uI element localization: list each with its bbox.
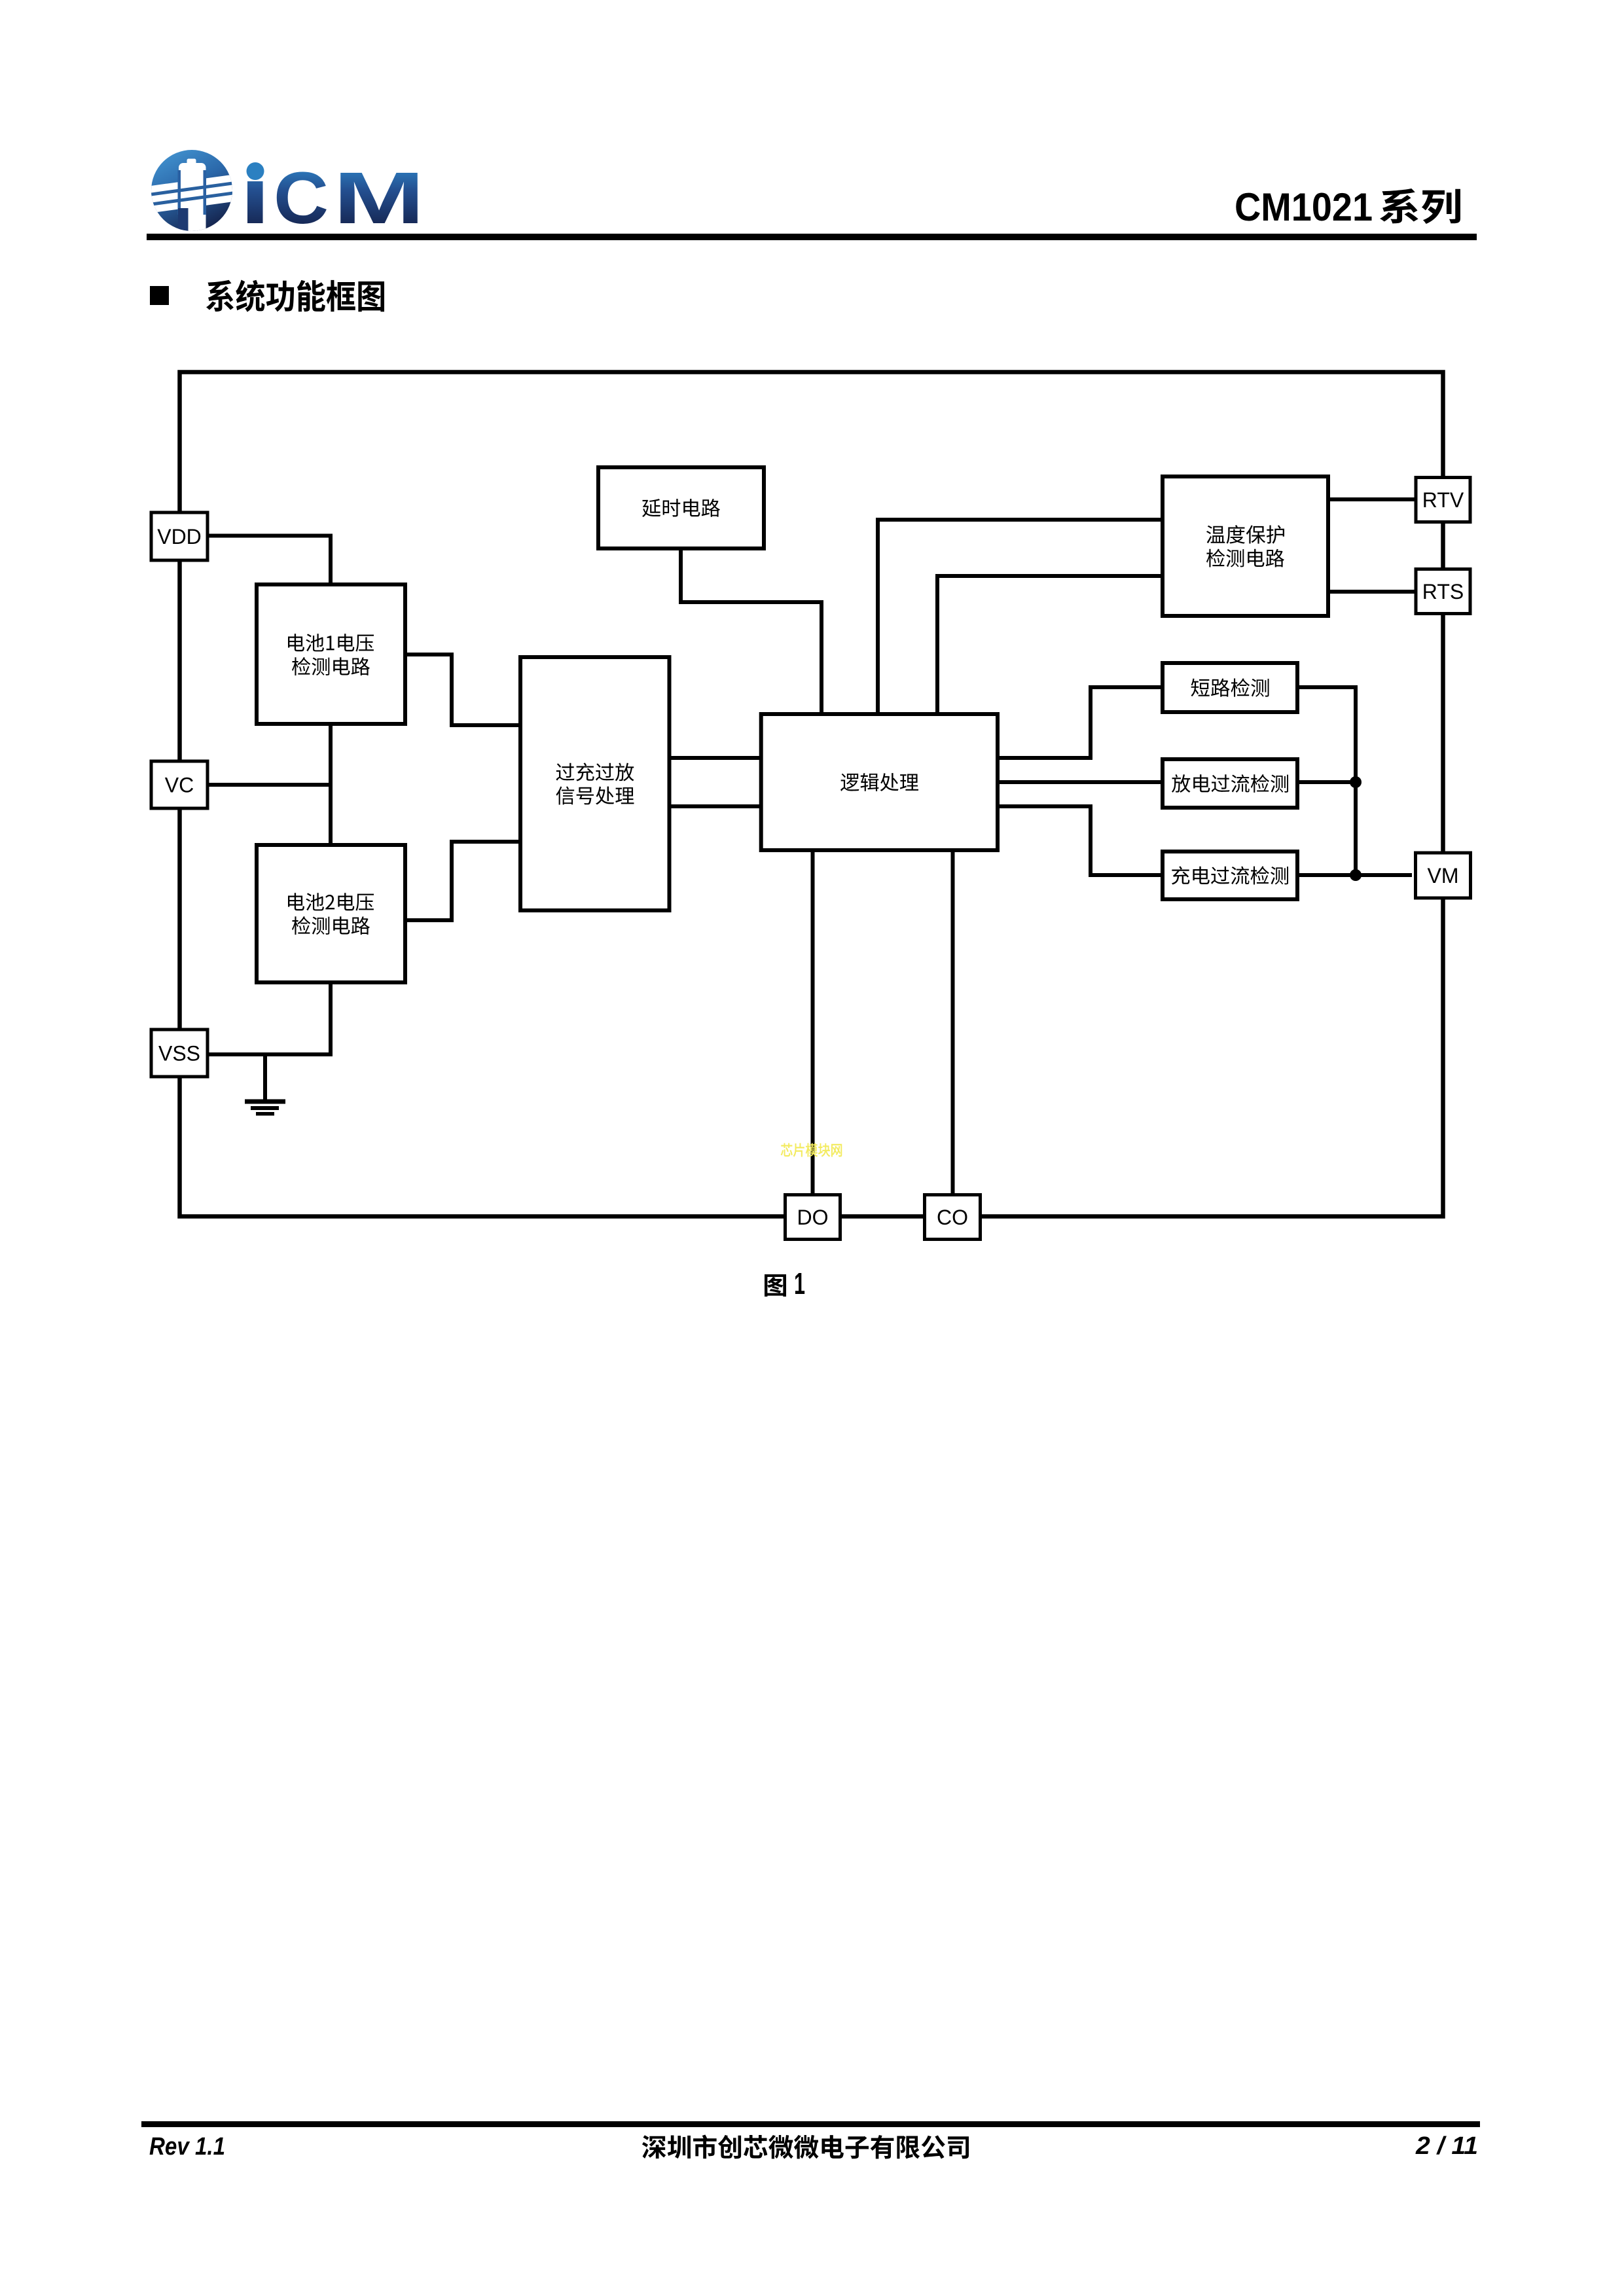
svg-text:VSS: VSS <box>158 1042 200 1066</box>
svg-text:Rev 1.1: Rev 1.1 <box>149 2133 225 2161</box>
wire logic to CO <box>951 850 955 1195</box>
wire battery-2 detect to VSS <box>209 982 331 1054</box>
svg-text:VC: VC <box>165 774 194 797</box>
wire battery-1 detect output to overcharge/overdischarge signal processing <box>405 655 520 725</box>
wire VDD to battery-1 voltage detect <box>209 536 331 585</box>
wire temperature protect detect to RTS <box>1328 590 1415 594</box>
wire charge overcurrent detect to VM <box>1297 873 1412 877</box>
pin RTV <box>1416 478 1470 522</box>
pin VDD <box>151 512 208 560</box>
wire logic to discharge overcurrent detect <box>998 780 1163 784</box>
wire temperature protect detect to RTV <box>1328 497 1415 501</box>
block U3: battery 2 voltage detection circuit (电池2电压检测电路) <box>257 845 405 982</box>
pin RTS <box>1416 569 1470 614</box>
footer company name <box>642 2135 969 2159</box>
svg-text:VM: VM <box>1428 864 1459 888</box>
wire short-circuit detect to VM bus <box>1297 687 1356 875</box>
block U5: logic processing (逻辑处理) <box>761 714 998 850</box>
svg-text:RTS: RTS <box>1422 580 1464 603</box>
pin CO <box>925 1195 981 1240</box>
block U1: delay circuit (延时电路) <box>598 467 764 548</box>
wire battery-1 detect to battery-2 detect (node VC bus) <box>329 724 333 845</box>
svg-text:1: 1 <box>794 1266 805 1300</box>
header rule <box>147 234 1477 240</box>
wire battery-2 detect output to overcharge/overdischarge signal processing <box>405 842 520 920</box>
figure caption: 图 1 <box>765 1266 805 1300</box>
pin VM <box>1416 853 1471 898</box>
pin VSS <box>151 1030 208 1077</box>
wire VC to cell-sense node <box>209 783 331 787</box>
ground <box>245 1054 285 1116</box>
wire: IC boundary bus (outer frame connecting VDD/VSS/RTV/RTS/VM/DO/CO) <box>180 372 1443 1217</box>
wire logic to short-circuit detect <box>998 687 1163 758</box>
svg-text:C: C <box>274 157 329 239</box>
document title: CM1021 series <box>1235 185 1460 229</box>
pin VC <box>151 761 208 808</box>
wire logic to DO <box>811 850 815 1195</box>
wire temperature protect detect to logic (line 1) <box>878 520 1163 714</box>
wire temperature protect detect to logic (line 2) <box>937 576 1163 714</box>
block U8: discharge overcurrent detection (放电过流检测) <box>1163 759 1297 808</box>
svg-text:2 / 11: 2 / 11 <box>1415 2132 1478 2160</box>
pin DO <box>785 1195 840 1240</box>
svg-text:M: M <box>333 157 425 239</box>
junction dot: discharge detect / VM bus <box>1350 776 1362 788</box>
wire signal processing to logic (lower) <box>669 804 761 808</box>
svg-text:VDD: VDD <box>157 525 202 548</box>
junction dot: charge detect / VM bus <box>1350 869 1362 881</box>
wire discharge overcurrent detect to VM bus <box>1297 780 1356 784</box>
block U2: battery 1 voltage detection circuit (电池1电压检测电路) <box>257 584 405 724</box>
svg-text:CM1021: CM1021 <box>1235 185 1373 229</box>
svg-text:RTV: RTV <box>1422 488 1464 512</box>
footer rule <box>141 2121 1480 2127</box>
wire delay circuit to logic <box>681 548 821 714</box>
wire logic to charge overcurrent detect <box>998 806 1163 875</box>
block U9: charge overcurrent detection (充电过流检测) <box>1163 852 1297 899</box>
svg-text:CO: CO <box>937 1206 968 1229</box>
watermark <box>781 1143 842 1157</box>
company logo iCM <box>142 150 425 239</box>
section heading: system function block diagram <box>150 279 384 312</box>
block U6: temperature protection detection circuit (温度保护检测电路) <box>1163 476 1328 616</box>
block U7: short-circuit detection (短路检测) <box>1163 663 1297 712</box>
wire signal processing to logic (upper) <box>669 756 761 760</box>
block U4: overcharge/overdischarge signal processing (过充过放信号处理) <box>520 657 670 910</box>
svg-text:DO: DO <box>797 1206 829 1229</box>
